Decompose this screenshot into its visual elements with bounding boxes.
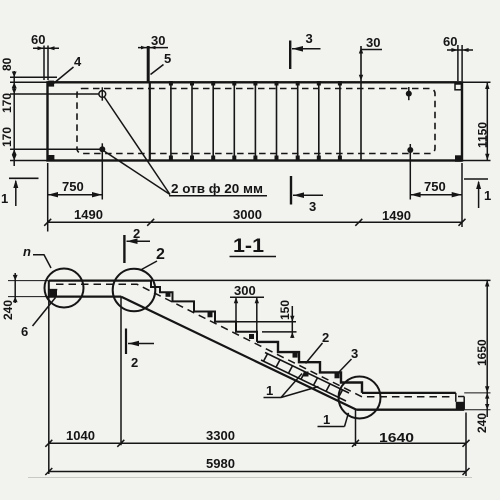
svg-text:1490: 1490: [74, 207, 103, 222]
dashed axis line: landing, slope, bottom landing: [56, 284, 450, 397]
dim 1150 right: [463, 81, 491, 83]
ext line hole bottom: [10, 148, 100, 150]
svg-text:3000: 3000: [233, 207, 262, 222]
svg-text:n: n: [23, 244, 31, 259]
corner plate bottom-left (filled): [48, 155, 55, 162]
dim 750 right: [410, 194, 462, 196]
dim 30 right: [360, 46, 362, 82]
svg-text:150: 150: [278, 300, 292, 320]
svg-text:30: 30: [366, 35, 380, 50]
svg-text:2 отв ф 20 мм: 2 отв ф 20 мм: [171, 181, 263, 196]
small arrows on left chain: [12, 72, 17, 161]
svg-text:80: 80: [0, 57, 14, 71]
svg-text:2: 2: [133, 226, 140, 241]
bottom landing right end notch: [455, 393, 457, 402]
section mark 2 in section: [125, 329, 127, 355]
svg-text:3: 3: [351, 346, 358, 361]
svg-text:2: 2: [131, 355, 138, 370]
section mark 2 below plan: [123, 235, 125, 263]
detail circle bottom: [339, 377, 381, 419]
section mark 1 left: [9, 177, 39, 179]
hole marker top-left (open circle): [99, 91, 106, 98]
section mark 3 bottom: [290, 176, 292, 205]
svg-text:5980: 5980: [206, 456, 235, 471]
svg-text:1040: 1040: [66, 428, 95, 443]
dim 150: [236, 321, 296, 323]
svg-text:1-1: 1-1: [233, 236, 264, 257]
svg-text:1: 1: [484, 188, 491, 203]
dashed inner rectangle: [77, 89, 435, 154]
dim line 1040/3300/1640: [49, 442, 466, 444]
steps zigzag: [151, 281, 257, 342]
ext line hole top: [10, 93, 99, 95]
svg-text:30: 30: [151, 33, 165, 48]
bottom dims extension lines: [355, 410, 357, 446]
corner plate top-right (open): [455, 84, 462, 90]
ext line y=77: [10, 76, 57, 78]
svg-text:3300: 3300: [206, 428, 235, 443]
top landing bottom edge: [49, 295, 121, 297]
svg-text:2: 2: [156, 246, 165, 263]
dim 240 left: [8, 280, 49, 282]
hole marker top-right (filled dot): [406, 91, 412, 97]
left dim chain vertical line: [13, 71, 15, 166]
svg-text:1650: 1650: [475, 339, 489, 366]
landing left end black plate: [50, 290, 57, 297]
svg-text:1490: 1490: [382, 208, 411, 223]
svg-text:170: 170: [0, 127, 14, 147]
bottom landing bottom edge: [357, 409, 465, 411]
folded-plate cells strip lower line: [261, 360, 346, 401]
svg-text:1: 1: [1, 191, 8, 206]
flight band bottom line: [121, 297, 357, 410]
svg-text:4: 4: [74, 54, 82, 69]
svg-text:1150: 1150: [476, 122, 490, 148]
bottom landing top edge: [362, 392, 456, 394]
ext line rect top: [10, 81, 48, 83]
faint page edge line: [28, 477, 472, 479]
long thin extension line to the right: [152, 279, 491, 281]
svg-text:750: 750: [424, 179, 446, 194]
svg-text:2: 2: [322, 330, 329, 345]
step nose plates (black): [166, 292, 340, 379]
hole marker bottom-left (filled dot): [99, 146, 105, 152]
svg-text:3: 3: [309, 199, 316, 214]
plan bottom dim line 1490/3000/1490: [47, 163, 49, 232]
hole leader lines: [104, 97, 170, 195]
svg-text:6: 6: [21, 324, 28, 339]
detail circle left (n/6): [45, 269, 84, 308]
dim 30 left with thick strip (element 5): [147, 46, 150, 82]
ext line y=392.9 right: [464, 392, 490, 394]
svg-text:60: 60: [31, 32, 45, 47]
top landing left edge / extension down: [48, 281, 50, 474]
dim 60 left: ext lines: [43, 46, 45, 81]
dim 240 right: [486, 393, 488, 417]
dim line 5980: [49, 471, 466, 473]
step line end blobs top: [169, 81, 342, 86]
svg-text:1: 1: [323, 412, 330, 427]
step lines: [150, 82, 361, 160]
svg-text:240: 240: [475, 413, 489, 433]
svg-text:60: 60: [443, 34, 457, 49]
svg-text:240: 240: [1, 300, 15, 320]
top landing top edge: [49, 279, 152, 281]
cell divider lines (slanted): [264, 354, 343, 398]
step line end blobs bottom: [169, 156, 342, 161]
section mark 3 top: [289, 41, 291, 70]
corner plate bottom-right (filled): [455, 155, 462, 162]
plan outline rectangle: [48, 82, 463, 160]
svg-text:1: 1: [266, 383, 273, 398]
hole marker bottom-right (filled dot): [407, 147, 413, 153]
extension line x=121: [120, 297, 122, 445]
corner plate top-left (filled): [48, 81, 54, 87]
dim 1650 right: [486, 280, 488, 393]
dim 300: [230, 296, 264, 298]
dim 750 left: [48, 194, 103, 196]
ext line y=409.7 right: [464, 409, 490, 411]
svg-text:750: 750: [62, 179, 84, 194]
svg-text:1640: 1640: [379, 430, 414, 445]
dim 60 right: ext lines: [457, 45, 459, 81]
section mark 1 right: [464, 178, 488, 180]
folded-plate cells strip upper line: [265, 353, 349, 394]
ext line rect bottom: [10, 160, 48, 162]
svg-text:5: 5: [164, 51, 171, 66]
detail circle middle (2): [113, 269, 156, 312]
svg-text:170: 170: [0, 93, 14, 113]
svg-text:300: 300: [234, 283, 256, 298]
svg-text:3: 3: [306, 31, 313, 46]
